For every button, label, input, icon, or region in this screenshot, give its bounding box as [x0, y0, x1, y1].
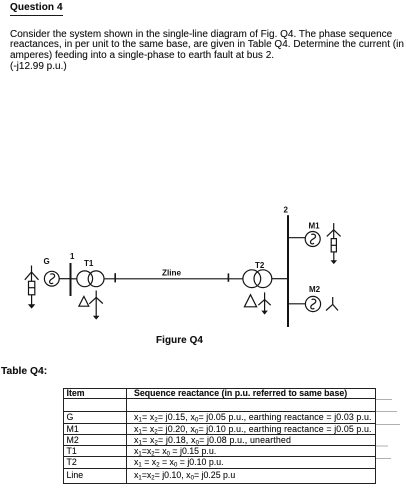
svg-text:2: 2 — [284, 206, 289, 215]
svg-text:T2: T2 — [255, 261, 265, 270]
svg-text:Zline: Zline — [162, 269, 182, 278]
svg-text:M2: M2 — [309, 285, 321, 294]
svg-text:G: G — [44, 257, 50, 266]
svg-text:1: 1 — [70, 252, 75, 261]
svg-text:T1: T1 — [84, 259, 94, 268]
svg-text:M1: M1 — [309, 221, 321, 230]
